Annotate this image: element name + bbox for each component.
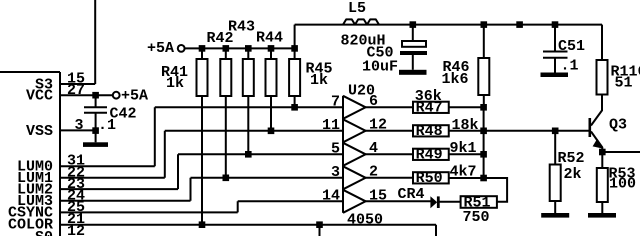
wire top to R116 [601, 25, 603, 60]
IC box edge [0, 72, 60, 236]
svg-text:6: 6 [369, 93, 378, 110]
svg-text:9k1: 9k1 [450, 140, 477, 157]
svg-text:R44: R44 [256, 29, 283, 46]
op-amp U20 buffers left edge [342, 96, 344, 213]
svg-text:C51: C51 [558, 38, 585, 55]
pin VSS wire (pin 3) [60, 129, 97, 131]
ground bar C50 [399, 70, 427, 75]
transistor Q3 emitter arrow [593, 139, 603, 149]
resistor R44 [270, 48, 272, 130]
emitter output wire [602, 151, 640, 153]
svg-text:2k: 2k [564, 166, 582, 183]
svg-text:+5A: +5A [121, 88, 148, 105]
svg-text:3: 3 [331, 164, 340, 181]
transistor Q3 base bar [588, 118, 591, 137]
terminal +5A at rail [178, 45, 185, 52]
svg-text:.1: .1 [561, 57, 579, 74]
svg-text:3: 3 [75, 117, 84, 134]
svg-text:R48: R48 [416, 123, 443, 140]
capacitor C50 lower plate [400, 51, 427, 55]
wire R48 to Q3 base [449, 130, 590, 132]
wire buffer5 to diode [366, 200, 431, 202]
buffer input wires [155, 107, 343, 201]
resistor R50 box [413, 172, 449, 183]
ground bar R53 [588, 213, 616, 218]
svg-text:VSS: VSS [26, 123, 53, 140]
svg-text:27: 27 [67, 82, 85, 99]
resistor R51 box [461, 196, 497, 208]
buffer 4 triangle [343, 166, 366, 189]
svg-text:R47: R47 [416, 100, 443, 117]
ground bar C42 [83, 142, 108, 147]
svg-text:+5A: +5A [147, 40, 174, 57]
node column wire [483, 107, 485, 178]
pin S3 wire (pin 15) [60, 0, 95, 84]
svg-text:14: 14 [322, 187, 340, 204]
wire R49 to node [449, 153, 484, 155]
svg-text:15: 15 [369, 187, 387, 204]
svg-text:51: 51 [615, 74, 633, 91]
svg-text:10uF: 10uF [362, 59, 398, 76]
svg-text:L5: L5 [348, 0, 366, 17]
resistor R116 [597, 60, 608, 95]
buffer output wires [366, 107, 413, 178]
+5A rail wire [185, 47, 295, 49]
top wire [295, 24, 602, 26]
inductor L5 [343, 19, 379, 24]
svg-text:VCC: VCC [26, 88, 53, 105]
diode CR4 body [430, 196, 437, 208]
resistor R48 box [413, 125, 449, 136]
capacitor C51 [543, 25, 568, 73]
junction dots [92, 92, 99, 99]
diode CR4 [440, 201, 461, 203]
svg-text:.1: .1 [98, 117, 116, 134]
pin LUM1 wire (pin 22) [60, 131, 165, 178]
capacitor C42 [84, 95, 107, 130]
resistor R41 [201, 48, 203, 224]
svg-text:1k: 1k [166, 75, 184, 92]
pin VCC wire (pin 27) [60, 94, 112, 96]
svg-text:2: 2 [369, 163, 378, 180]
ground bar C51 [541, 73, 569, 78]
svg-text:100: 100 [609, 176, 636, 193]
buffer 5 triangle [343, 190, 366, 213]
resistor R52 [554, 131, 556, 213]
buffer 3 triangle [343, 143, 366, 166]
buffer 2 triangle [343, 119, 366, 142]
svg-text:Q3: Q3 [609, 117, 627, 134]
ground below C42 [95, 130, 97, 142]
svg-text:R43: R43 [228, 18, 255, 35]
pin LUM3 wire (pin 24) [60, 178, 191, 201]
pin CSYNC wire (pin 25) [60, 201, 238, 212]
svg-text:7: 7 [331, 93, 340, 110]
svg-text:18k: 18k [452, 117, 479, 134]
svg-text:1k: 1k [310, 72, 328, 89]
svg-text:4050: 4050 [347, 211, 383, 228]
ground bar R52 [541, 213, 569, 218]
wire rail to top [294, 25, 296, 49]
svg-text:750: 750 [463, 209, 490, 226]
wire R47 to node [449, 106, 484, 108]
svg-text:12: 12 [369, 116, 387, 133]
pin COLOR wire (pin 21) [60, 225, 436, 236]
svg-text:R49: R49 [416, 147, 443, 164]
svg-text:1k6: 1k6 [442, 71, 469, 88]
resistor R42 [225, 48, 227, 177]
resistor R53 [601, 152, 603, 213]
pin LUM2 wire (pin 23) [60, 154, 178, 189]
resistor R49 box [413, 149, 449, 160]
terminal +5A at VCC [113, 92, 120, 99]
pin LUM0 wire (pin 31) [60, 107, 155, 166]
svg-text:4k7: 4k7 [450, 164, 477, 181]
transistor Q3 collector [591, 110, 602, 126]
resistor R45 [294, 48, 296, 107]
svg-text:12: 12 [67, 223, 85, 236]
resistor R43 [247, 48, 249, 154]
buffer 1 triangle [343, 96, 366, 119]
svg-text:11: 11 [322, 117, 340, 134]
svg-text:5: 5 [331, 140, 340, 157]
svg-text:R52: R52 [558, 150, 585, 167]
svg-text:S0: S0 [35, 229, 53, 236]
wire R50 to R51 [449, 178, 507, 202]
resistor R46 [483, 25, 485, 108]
svg-text:4: 4 [369, 140, 378, 157]
svg-text:R50: R50 [416, 170, 443, 187]
capacitor C50 [412, 25, 414, 41]
svg-text:CR4: CR4 [398, 186, 425, 203]
resistor R47 box [413, 102, 449, 113]
transistor Q3 emitter [591, 132, 602, 153]
